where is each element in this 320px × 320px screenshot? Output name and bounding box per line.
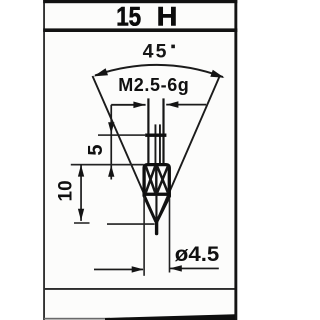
diameter 4.5 right extension line: [169, 199, 171, 273]
body top extension line: [71, 164, 144, 166]
diameter 4.5 left extension line: [143, 197, 145, 276]
dia 4.5 dimension line right segment: [170, 268, 219, 270]
knurl X right cell diagonal 2: [157, 166, 168, 192]
tip-level extension line segment a: [74, 222, 90, 224]
svg-text:ø4.5: ø4.5: [175, 243, 220, 266]
10 dim lower arrowhead (points down): [78, 209, 84, 221]
5 dim upper arrowhead (points down): [108, 122, 114, 133]
bottom edge thin gray segment: [44, 318, 110, 320]
M2.5 dimension line right segment: [166, 104, 206, 106]
arc left arrowhead: [94, 68, 108, 76]
10 dim upper arrowhead (points up): [78, 165, 84, 177]
left cone-angle extension line (V left): [93, 76, 157, 222]
dia 4.5 left arrowhead (points right): [132, 266, 144, 272]
svg-text:15: 15: [116, 1, 141, 31]
arc right arrowhead: [210, 70, 224, 78]
contact tip stub: [155, 220, 158, 235]
dia 4.5 right arrowhead (points left): [170, 265, 182, 271]
extension line from shoulder to 5-dim: [98, 134, 145, 136]
frame top border: [43, 0, 237, 3]
svg-text:45: 45: [143, 41, 169, 63]
knurl X left cell diagonal 1: [146, 166, 155, 192]
5 dim lower arrowhead (points up): [108, 165, 114, 177]
knurl X left cell diagonal 2: [146, 166, 155, 192]
stud slot left line: [155, 124, 157, 163]
tip-level extension line segment b: [107, 223, 155, 225]
cone right side: [157, 196, 170, 222]
5 dimension vertical line: [110, 105, 112, 180]
body center line: [155, 166, 157, 194]
knurl X right cell diagonal 1: [157, 166, 168, 192]
degree dot: [171, 45, 175, 49]
svg-text:5: 5: [85, 144, 107, 155]
M2.5 left arrowhead: [133, 102, 145, 109]
M2.5 dimension line left segment: [111, 104, 145, 106]
knurled body outline: [144, 165, 169, 197]
right cone-angle extension line (V right): [157, 77, 220, 222]
threaded stud right side / extension line: [162, 98, 164, 164]
separator line above footer: [44, 288, 235, 290]
M2.5 right arrowhead: [166, 101, 178, 108]
svg-text:10: 10: [55, 180, 76, 201]
svg-text:M2.5-6g: M2.5-6g: [118, 75, 189, 95]
threaded stud left side / extension line: [147, 98, 149, 164]
10 dimension vertical line: [80, 165, 82, 221]
stud slot right line: [159, 124, 161, 163]
bottom edge thick black segment: [105, 314, 235, 320]
body bottom bar: [143, 193, 171, 196]
cone left side: [144, 196, 156, 222]
45deg dimension arc: [95, 65, 223, 77]
frame right border: [234, 0, 237, 320]
cone center line: [155, 195, 157, 220]
dia 4.5 dimension line left segment: [94, 269, 143, 271]
stud shoulder crossbar: [145, 134, 166, 137]
frame left border: [43, 0, 45, 320]
svg-text:H: H: [157, 1, 178, 31]
header bottom bar: [43, 28, 237, 32]
card background: [44, 0, 235, 320]
